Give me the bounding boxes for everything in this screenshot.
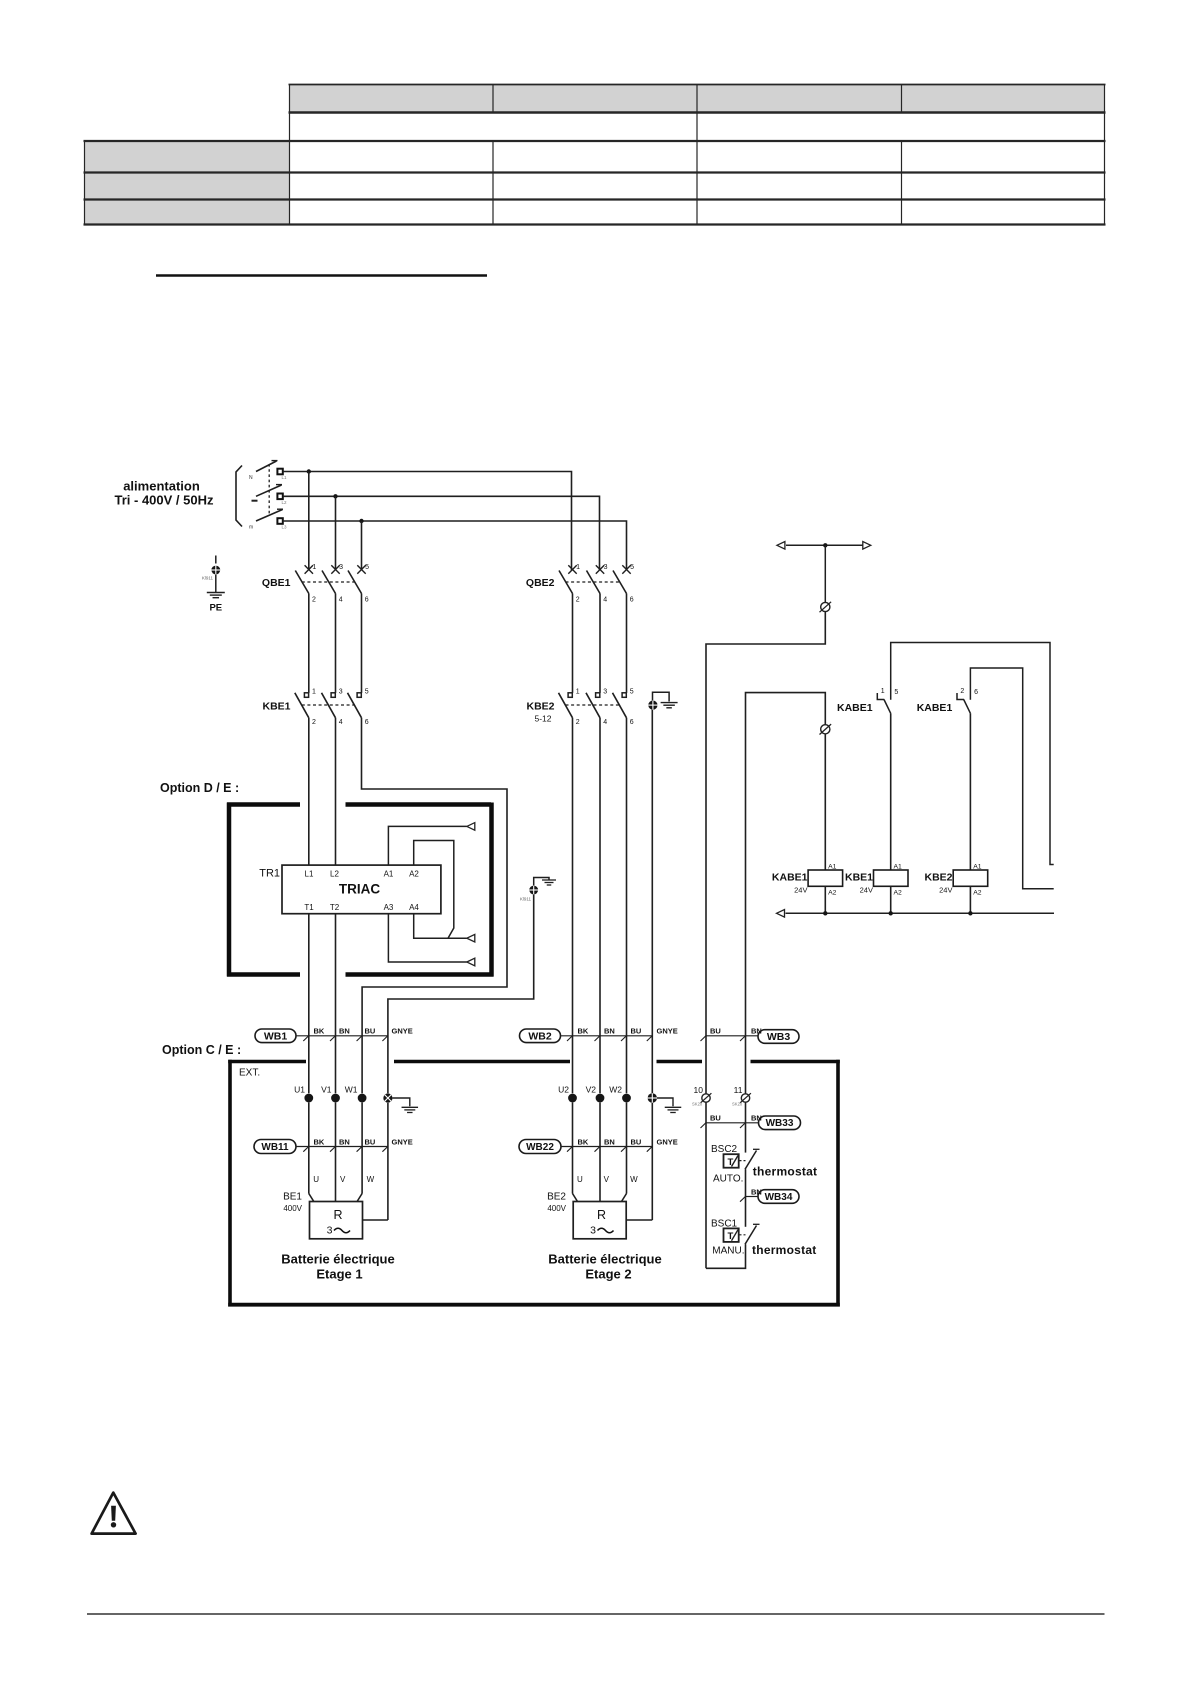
labels U V W (BE1 inputs) bbox=[313, 1175, 374, 1184]
svg-text:BU: BU bbox=[365, 1137, 376, 1146]
svg-text:WB2: WB2 bbox=[528, 1030, 551, 1042]
terminal W1 bbox=[345, 1085, 367, 1103]
svg-text:Option C / E :: Option C / E : bbox=[162, 1043, 241, 1057]
breaker QBE2 pole 1-2 bbox=[559, 564, 580, 604]
PE terminal Kl911 bbox=[202, 556, 220, 593]
svg-text:5: 5 bbox=[365, 564, 369, 571]
coil KBE1 24V bbox=[845, 863, 908, 896]
wire KBE2 pole6 down to W2 bbox=[626, 718, 628, 1093]
ground at KBE2 earth terminal bbox=[661, 703, 678, 708]
svg-text:Kl911: Kl911 bbox=[202, 576, 214, 581]
svg-text:2: 2 bbox=[960, 688, 964, 695]
svg-text:alimentation: alimentation bbox=[123, 479, 200, 494]
leader WB22 to wires bbox=[561, 1146, 653, 1152]
svg-text:thermostat: thermostat bbox=[753, 1165, 818, 1179]
svg-text:GNYE: GNYE bbox=[392, 1137, 413, 1146]
contactor KBE2 bbox=[526, 701, 554, 724]
wire KBE2 pole2 down to U2 bbox=[572, 718, 574, 1093]
wire color labels WB11 bbox=[314, 1137, 413, 1146]
svg-text:6: 6 bbox=[630, 597, 634, 604]
terminal 11 bbox=[732, 1085, 751, 1107]
svg-text:5-12: 5-12 bbox=[534, 714, 551, 724]
label Batterie electrique Etage 2 bbox=[548, 1252, 661, 1282]
spec table borders bbox=[84, 85, 1106, 225]
off-page arrow A2/A4 bbox=[467, 934, 475, 942]
svg-text:2: 2 bbox=[312, 719, 316, 726]
cable label WB2 bbox=[520, 1029, 561, 1043]
svg-text:KABE1: KABE1 bbox=[917, 702, 953, 714]
svg-text:PE: PE bbox=[209, 603, 222, 614]
wire BSC1 bottom loop to BU bbox=[706, 1244, 746, 1268]
wire BSC2 to WB34 row bbox=[745, 1169, 747, 1227]
svg-text:4: 4 bbox=[603, 719, 607, 726]
svg-text:3: 3 bbox=[590, 1225, 596, 1237]
wire color labels WB22 bbox=[578, 1137, 678, 1146]
svg-text:10: 10 bbox=[694, 1085, 704, 1095]
leader WB3 to wires bbox=[701, 1035, 759, 1041]
node tap L3 to QBE1 bbox=[359, 519, 363, 571]
svg-text:L3: L3 bbox=[282, 525, 288, 530]
control supply rail with off-page arrows bbox=[777, 542, 871, 550]
svg-text:L1: L1 bbox=[282, 475, 288, 480]
svg-text:A2: A2 bbox=[973, 890, 982, 897]
svg-text:Batterie électrique: Batterie électrique bbox=[548, 1252, 661, 1267]
breaker QBE1 pole 5-6 bbox=[348, 564, 369, 604]
leader WB34 bbox=[740, 1196, 758, 1202]
ground at Kl911 bbox=[542, 880, 556, 885]
spec table header row (gray) bbox=[290, 85, 1105, 113]
wire BN below terminal 11 bbox=[745, 1102, 747, 1152]
svg-text:T: T bbox=[728, 1157, 734, 1168]
earth terminal GNYE1 bbox=[383, 1093, 392, 1102]
option D/E enclosure (thick, with wire gaps) bbox=[227, 803, 494, 977]
svg-text:11: 11 bbox=[734, 1085, 743, 1095]
svg-text:5: 5 bbox=[630, 564, 634, 571]
svg-text:5: 5 bbox=[630, 689, 634, 696]
svg-text:R: R bbox=[333, 1208, 342, 1222]
heater BE2 400V bbox=[547, 1192, 626, 1239]
svg-text:KBE2: KBE2 bbox=[526, 701, 554, 713]
svg-text:3: 3 bbox=[327, 1225, 333, 1237]
svg-text:WB1: WB1 bbox=[264, 1030, 287, 1042]
ground PE bbox=[207, 593, 225, 598]
wire color labels WB3: BU BN bbox=[710, 1027, 762, 1036]
svg-text:WB22: WB22 bbox=[526, 1142, 554, 1153]
wire KBE1 pole2 to TRIAC L1 bbox=[308, 718, 310, 865]
svg-text:BU: BU bbox=[631, 1027, 642, 1036]
contactor KBE2 pole 5-6 bbox=[613, 689, 634, 726]
wires U1 V1 W1 down to WB11 bbox=[309, 1102, 388, 1220]
fuse/terminal on KABE1 coil feed bbox=[820, 724, 832, 734]
svg-text:V1: V1 bbox=[321, 1085, 332, 1095]
svg-text:KABE1: KABE1 bbox=[837, 702, 873, 714]
contactor KBE1 pole 3-4 bbox=[322, 689, 343, 726]
footer rule bbox=[87, 1613, 1105, 1615]
svg-text:1: 1 bbox=[881, 688, 885, 695]
wire contact1 to KBE1 coil bbox=[890, 713, 892, 870]
svg-text:T1: T1 bbox=[304, 903, 314, 912]
svg-text:400V: 400V bbox=[547, 1204, 566, 1213]
svg-text:W2: W2 bbox=[609, 1085, 622, 1095]
leader WB2 to wires bbox=[561, 1035, 653, 1041]
wire color labels WB33: BU BN bbox=[710, 1114, 762, 1123]
svg-text:WB11: WB11 bbox=[261, 1142, 289, 1153]
ground at GNYE2 bbox=[657, 1098, 681, 1113]
terminal V1 bbox=[321, 1085, 340, 1103]
wire color labels WB2: BK BN BU GNYE bbox=[578, 1027, 678, 1036]
breaker QBE1 linkage bbox=[302, 581, 355, 583]
wire TRIAC A2 bbox=[414, 841, 454, 939]
ground at GNYE1 bbox=[393, 1098, 419, 1113]
svg-text:Etage 1: Etage 1 bbox=[316, 1267, 362, 1282]
svg-text:U1: U1 bbox=[294, 1085, 305, 1095]
contactor KBE2 pole 1-2 bbox=[559, 689, 580, 726]
svg-text:KBE1: KBE1 bbox=[262, 701, 290, 713]
svg-text:24V: 24V bbox=[794, 886, 807, 895]
wire fuse to BU drop bbox=[706, 612, 825, 1094]
breaker QBE2 pole 5-6 bbox=[613, 564, 634, 604]
wire phase L2 bbox=[283, 496, 600, 570]
svg-text:24V: 24V bbox=[860, 886, 873, 895]
terminal 10 bbox=[692, 1085, 711, 1107]
cable label WB1 bbox=[255, 1029, 296, 1043]
wire KBE2 pole4 down to V2 bbox=[599, 718, 601, 1093]
svg-text:KBE2: KBE2 bbox=[924, 872, 952, 884]
wire PE/GNYE from Kl911 down to WB1 bundle bbox=[388, 894, 534, 1093]
svg-text:A2: A2 bbox=[828, 890, 837, 897]
labels U V W (BE2 inputs) bbox=[577, 1175, 638, 1184]
TRIAC module TR1 bbox=[259, 865, 441, 914]
svg-text:2: 2 bbox=[576, 597, 580, 604]
svg-text:BN: BN bbox=[604, 1137, 615, 1146]
contactor KBE2 linkage bbox=[566, 704, 620, 706]
svg-text:WB3: WB3 bbox=[767, 1031, 790, 1043]
svg-text:1: 1 bbox=[576, 564, 580, 571]
wire KBE1 pole6 bypass (W phase) bbox=[362, 718, 508, 1093]
svg-text:5: 5 bbox=[365, 689, 369, 696]
svg-text:U: U bbox=[313, 1175, 319, 1184]
leader WB11 to wires bbox=[296, 1146, 388, 1152]
svg-text:T2: T2 bbox=[330, 903, 340, 912]
svg-text:A2: A2 bbox=[409, 870, 419, 879]
wire coil KBE2 A2 to rail bbox=[969, 886, 971, 913]
wire rail to fuse bbox=[824, 545, 826, 602]
svg-text:N: N bbox=[249, 475, 253, 481]
wire TRIAC A3 to connector bbox=[388, 914, 466, 962]
wire TRIAC T1 to U1 bbox=[308, 914, 310, 1093]
label Batterie electrique Etage 1 bbox=[281, 1252, 394, 1282]
svg-text:L2: L2 bbox=[282, 500, 288, 505]
svg-text:BE1: BE1 bbox=[283, 1192, 302, 1203]
svg-text:KBE1: KBE1 bbox=[845, 872, 873, 884]
svg-text:U2: U2 bbox=[558, 1085, 569, 1095]
svg-text:BN: BN bbox=[604, 1027, 615, 1036]
svg-text:A1: A1 bbox=[828, 863, 837, 870]
svg-text:A1: A1 bbox=[894, 863, 903, 870]
svg-text:W: W bbox=[630, 1175, 638, 1184]
svg-text:1: 1 bbox=[576, 689, 580, 696]
terminal V2 bbox=[586, 1085, 605, 1103]
svg-text:BN: BN bbox=[751, 1027, 762, 1036]
svg-text:6: 6 bbox=[365, 597, 369, 604]
wire TRIAC T2 to V1 bbox=[335, 914, 337, 1093]
cable label WB11 bbox=[254, 1140, 296, 1154]
svg-text:BU: BU bbox=[710, 1027, 721, 1036]
svg-text:BU: BU bbox=[710, 1114, 721, 1123]
svg-text:1: 1 bbox=[312, 689, 316, 696]
terminal W2 bbox=[609, 1085, 631, 1103]
contactor KBE1 pole 5-6 bbox=[348, 689, 369, 726]
off-page arrow A1 bbox=[467, 823, 475, 831]
aux contact KABE1 pins 2-6 bbox=[957, 688, 978, 713]
wire GNYE1 to BE1 frame bbox=[363, 1219, 388, 1221]
label alimentation Tri-400V/50Hz bbox=[115, 479, 214, 508]
breaker QBE2 linkage bbox=[566, 581, 620, 583]
svg-text:BK: BK bbox=[314, 1027, 325, 1036]
off-page arrow A3 bbox=[467, 958, 475, 966]
svg-text:3: 3 bbox=[339, 689, 343, 696]
svg-text:QBE2: QBE2 bbox=[526, 577, 555, 589]
terminal U1 bbox=[294, 1085, 313, 1103]
thermostat contact BSC1 (MANU) bbox=[711, 1218, 760, 1256]
svg-text:6: 6 bbox=[365, 719, 369, 726]
wire phase L1 bbox=[283, 472, 572, 571]
contactor KBE2 pole 3-4 bbox=[586, 689, 607, 726]
svg-text:V: V bbox=[604, 1175, 610, 1184]
wire QBE1 to KBE1 (3 phases) bbox=[309, 594, 362, 693]
wire TRIAC A4 to connector bbox=[414, 914, 467, 939]
svg-text:R: R bbox=[597, 1208, 606, 1222]
wire loop to KABE1 contact 1-5 bbox=[891, 643, 1054, 865]
earth terminal at KBE2 output (GNYE) bbox=[648, 692, 669, 709]
supply disconnect switch (3-pole, hand-drawn) bbox=[236, 461, 283, 531]
earth terminal Kl911 (near TRIAC) bbox=[520, 878, 549, 902]
svg-text:V2: V2 bbox=[586, 1085, 597, 1095]
leader WB33 bbox=[701, 1122, 759, 1128]
wire coil KABE1 A2 to rail bbox=[824, 886, 826, 913]
svg-text:Tri - 400V / 50Hz: Tri - 400V / 50Hz bbox=[115, 493, 214, 508]
svg-text:thermostat: thermostat bbox=[752, 1243, 817, 1257]
svg-text:GNYE: GNYE bbox=[657, 1137, 678, 1146]
coil KABE1 24V bbox=[772, 863, 843, 896]
svg-text:V: V bbox=[340, 1175, 346, 1184]
svg-text:WB33: WB33 bbox=[766, 1118, 794, 1129]
cable label WB34 bbox=[758, 1190, 799, 1204]
breaker QBE1 pole 3-4 bbox=[322, 564, 343, 604]
svg-text:BK: BK bbox=[314, 1137, 325, 1146]
svg-text:Batterie électrique: Batterie électrique bbox=[281, 1252, 394, 1267]
svg-text:A4: A4 bbox=[409, 903, 419, 912]
wire coil KBE1 A2 to rail bbox=[890, 886, 892, 913]
svg-text:4: 4 bbox=[339, 719, 343, 726]
EXT enclosure (thick, gaps for wires) bbox=[228, 1060, 840, 1307]
svg-text:TR1: TR1 bbox=[259, 868, 280, 880]
title underline bbox=[156, 274, 487, 277]
svg-text:BK: BK bbox=[578, 1027, 589, 1036]
wire BU below terminal 10 bbox=[705, 1102, 707, 1268]
wire loop to KABE1 contact 2-6 bbox=[970, 668, 1053, 889]
fuse/terminal on control feed bbox=[820, 602, 832, 612]
earth terminal GNYE2 bbox=[648, 1093, 657, 1102]
svg-text:4: 4 bbox=[339, 597, 343, 604]
svg-text:3: 3 bbox=[339, 564, 343, 571]
wire contact2 to KBE2 coil bbox=[969, 713, 971, 870]
svg-text:MANU.: MANU. bbox=[712, 1245, 744, 1256]
svg-text:6: 6 bbox=[630, 719, 634, 726]
wire QBE2 to KBE2 (3 phases) bbox=[573, 594, 627, 693]
svg-text:A1: A1 bbox=[384, 870, 394, 879]
cable label WB33 bbox=[759, 1116, 801, 1130]
svg-text:6: 6 bbox=[974, 689, 978, 696]
svg-text:TRIAC: TRIAC bbox=[339, 882, 380, 897]
svg-text:A1: A1 bbox=[973, 863, 982, 870]
svg-text:1: 1 bbox=[312, 564, 316, 571]
svg-text:Option D / E :: Option D / E : bbox=[160, 781, 239, 795]
svg-text:3: 3 bbox=[604, 564, 608, 571]
warning triangle bbox=[92, 1493, 136, 1534]
svg-text:SK20: SK20 bbox=[732, 1102, 743, 1107]
node tap L2 to QBE1 bbox=[333, 494, 337, 570]
svg-text:4: 4 bbox=[603, 597, 607, 604]
svg-text:L1: L1 bbox=[305, 870, 314, 879]
wire GNYE2 from earth terminal down bbox=[651, 710, 653, 1093]
spec table row label cells (gray) bbox=[85, 141, 290, 225]
control return rail with off-page arrow bbox=[777, 910, 1055, 918]
heater BE1 400V bbox=[283, 1192, 362, 1239]
svg-text:24V: 24V bbox=[939, 886, 952, 895]
svg-text:KABE1: KABE1 bbox=[772, 872, 808, 884]
svg-text:3: 3 bbox=[603, 689, 607, 696]
svg-text:BE2: BE2 bbox=[547, 1192, 566, 1203]
svg-text:BN: BN bbox=[751, 1187, 762, 1196]
breaker QBE2 pole 3-4 bbox=[587, 564, 608, 604]
svg-text:Kl911: Kl911 bbox=[520, 897, 532, 902]
node tap L1 to QBE1 bbox=[307, 469, 311, 570]
svg-text:m: m bbox=[249, 525, 253, 531]
svg-text:GNYE: GNYE bbox=[392, 1027, 413, 1036]
wire KBE1 pole4 to TRIAC L2 bbox=[335, 718, 337, 865]
svg-text:BN: BN bbox=[751, 1114, 762, 1123]
svg-text:BU: BU bbox=[631, 1137, 642, 1146]
contactor KBE1 linkage bbox=[302, 704, 355, 706]
svg-text:5: 5 bbox=[894, 689, 898, 696]
wire phase L3 bbox=[283, 521, 627, 571]
svg-text:A3: A3 bbox=[384, 903, 394, 912]
svg-text:BN: BN bbox=[339, 1027, 350, 1036]
svg-text:Etage 2: Etage 2 bbox=[585, 1267, 631, 1282]
svg-text:EXT.: EXT. bbox=[239, 1068, 260, 1079]
svg-text:QBE1: QBE1 bbox=[262, 577, 291, 589]
wire fuse to KABE1 coil A1 bbox=[824, 734, 826, 870]
svg-text:BK: BK bbox=[578, 1137, 589, 1146]
aux contact KABE1 pins 1-5 bbox=[877, 688, 898, 713]
svg-text:400V: 400V bbox=[283, 1204, 302, 1213]
svg-text:T: T bbox=[728, 1231, 734, 1242]
thermostat contact BSC2 (AUTO) bbox=[711, 1144, 760, 1184]
svg-text:U: U bbox=[577, 1175, 583, 1184]
svg-text:2: 2 bbox=[312, 597, 316, 604]
coil KBE2 24V bbox=[924, 863, 987, 896]
leader WB1 to wires bbox=[296, 1035, 388, 1041]
svg-text:BU: BU bbox=[365, 1027, 376, 1036]
supply terminals L1 L2 L3 bbox=[277, 469, 287, 530]
wires U2 V2 W2 down to WB22 bbox=[573, 1102, 653, 1220]
svg-text:WB34: WB34 bbox=[765, 1192, 793, 1203]
svg-text:BN: BN bbox=[339, 1137, 350, 1146]
svg-text:GNYE: GNYE bbox=[657, 1027, 678, 1036]
svg-text:A2: A2 bbox=[894, 890, 903, 897]
wire BN feed bbox=[746, 693, 826, 1094]
wire color labels WB1: BK BN BU GNYE bbox=[314, 1027, 413, 1036]
breaker QBE1 pole 1-2 bbox=[295, 564, 316, 604]
svg-text:W: W bbox=[367, 1175, 375, 1184]
cable label WB22 bbox=[519, 1140, 561, 1154]
wire GNYE2 to BE2 frame bbox=[626, 1219, 652, 1221]
svg-text:AUTO.: AUTO. bbox=[713, 1173, 743, 1184]
svg-text:L2: L2 bbox=[330, 870, 339, 879]
svg-text:2: 2 bbox=[576, 719, 580, 726]
contactor KBE1 pole 1-2 bbox=[295, 689, 316, 726]
svg-text:W1: W1 bbox=[345, 1085, 358, 1095]
wire TRIAC A1 to connector bbox=[388, 826, 466, 865]
cable label WB3 bbox=[758, 1030, 799, 1044]
svg-text:SK20: SK20 bbox=[692, 1102, 703, 1107]
terminal U2 bbox=[558, 1085, 577, 1103]
